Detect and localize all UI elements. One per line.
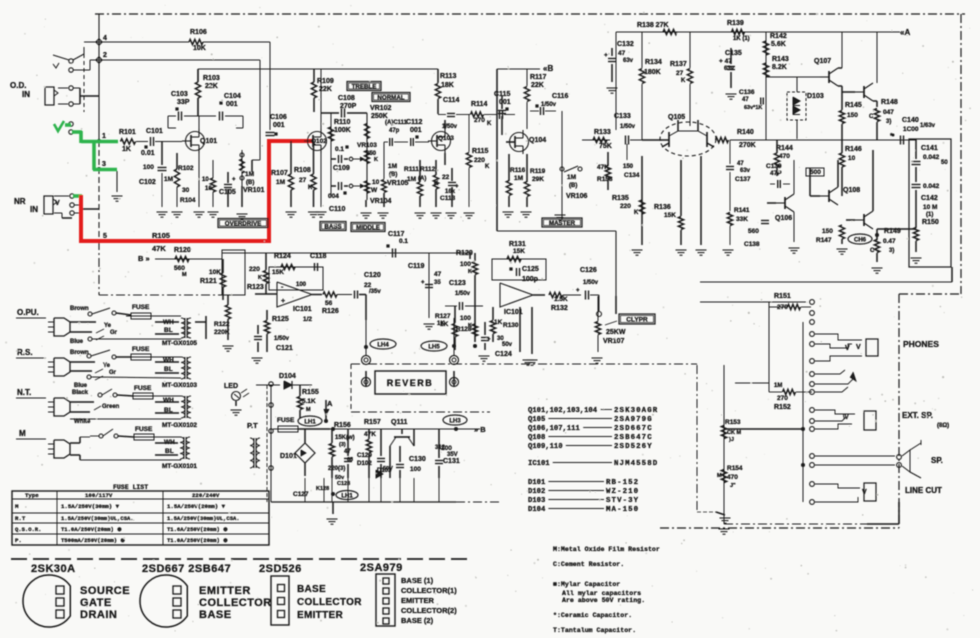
svg-text:C106: C106 — [270, 114, 287, 121]
svg-text:1.5A/250V(30mm)UL,CSA.: 1.5A/250V(30mm)UL,CSA. — [167, 515, 240, 522]
svg-text:47p: 47p — [389, 128, 400, 134]
svg-text:C132: C132 — [617, 41, 634, 48]
svg-text:R140: R140 — [737, 129, 754, 136]
svg-text:C137: C137 — [735, 176, 751, 183]
svg-text:47P: 47P — [770, 170, 782, 177]
svg-text:V: V — [856, 344, 861, 351]
svg-text:Q107: Q107 — [814, 58, 831, 65]
svg-text:R135: R135 — [612, 195, 629, 202]
svg-text:WH: WH — [163, 397, 174, 404]
svg-text:R121: R121 — [200, 278, 217, 285]
svg-text:47: 47 — [742, 97, 749, 103]
svg-text:D101: D101 — [528, 479, 546, 487]
svg-text:Q103: Q103 — [438, 135, 454, 142]
svg-text:2SD526: 2SD526 — [259, 563, 302, 575]
svg-text:R146: R146 — [845, 146, 862, 153]
svg-text:K: K — [374, 157, 378, 163]
svg-text:001: 001 — [226, 101, 238, 108]
svg-text:0.1: 0.1 — [335, 146, 344, 153]
svg-text:D103: D103 — [528, 497, 545, 505]
svg-text:Q106,107,111: Q106,107,111 — [528, 425, 580, 433]
svg-text:8.2K: 8.2K — [772, 64, 787, 71]
svg-text:63v: 63v — [740, 168, 751, 174]
svg-text:10K: 10K — [209, 269, 221, 276]
svg-text:M: M — [15, 503, 19, 510]
svg-text:C119: C119 — [408, 263, 424, 270]
svg-text:» B: » B — [474, 425, 486, 434]
svg-text:1/63v: 1/63v — [920, 123, 936, 129]
svg-text:Q105: Q105 — [668, 114, 685, 121]
svg-text:Q105: Q105 — [528, 416, 545, 424]
svg-text:M:Metal Oxide Film Resistor: M:Metal Oxide Film Resistor — [553, 546, 660, 553]
svg-text:K: K — [681, 78, 686, 84]
svg-text:LH4: LH4 — [377, 342, 389, 348]
svg-text:R101: R101 — [119, 129, 136, 136]
svg-text:R142: R142 — [770, 33, 787, 40]
svg-text:R114: R114 — [471, 101, 487, 108]
svg-text:220: 220 — [474, 157, 485, 164]
svg-text:C101: C101 — [146, 128, 163, 135]
svg-text:R150: R150 — [922, 219, 939, 226]
svg-text:VR104: VR104 — [370, 198, 392, 205]
svg-text:R156: R156 — [334, 422, 351, 429]
svg-text:CH6: CH6 — [854, 237, 867, 243]
svg-text:1.5A/250V(20mm) ▼: 1.5A/250V(20mm) ▼ — [167, 503, 226, 510]
svg-text:C126: C126 — [580, 267, 597, 274]
svg-text:16: 16 — [205, 186, 212, 192]
svg-text:10K: 10K — [193, 45, 206, 52]
svg-text:Q106: Q106 — [775, 215, 792, 222]
svg-text:1/50v: 1/50v — [274, 336, 290, 342]
svg-text:2SK30A: 2SK30A — [31, 563, 76, 575]
svg-text:C131: C131 — [443, 458, 460, 465]
svg-text:VR107: VR107 — [603, 338, 625, 345]
svg-text:1M: 1M — [388, 163, 397, 170]
svg-text:50v: 50v — [502, 342, 513, 348]
svg-text:FUSE: FUSE — [132, 346, 150, 353]
svg-text:R125: R125 — [272, 316, 289, 323]
svg-text:270K: 270K — [739, 142, 756, 149]
svg-text:220/240V: 220/240V — [192, 492, 220, 499]
svg-text:N.T.: N.T. — [17, 388, 31, 397]
svg-text:W: W — [371, 187, 378, 194]
svg-text:BASE (2): BASE (2) — [401, 616, 434, 625]
svg-text:WZ-210: WZ-210 — [606, 488, 639, 496]
svg-text:5: 5 — [103, 233, 107, 240]
svg-text:+: + — [232, 177, 236, 183]
svg-text:T1.0A/250V(20mm) ⊕: T1.0A/250V(20mm) ⊕ — [167, 537, 228, 544]
svg-text:R104: R104 — [180, 197, 196, 204]
svg-text:100: 100 — [460, 315, 471, 322]
svg-text:R133: R133 — [594, 129, 611, 136]
svg-text:D104: D104 — [279, 373, 296, 380]
svg-text:M: M — [306, 407, 311, 413]
svg-text:4: 4 — [103, 35, 107, 42]
svg-text:1K: 1K — [122, 146, 131, 153]
svg-text:R137: R137 — [670, 61, 687, 68]
svg-text:C120: C120 — [364, 272, 381, 279]
svg-text:R116: R116 — [510, 167, 526, 174]
svg-text:Green: Green — [102, 404, 120, 410]
svg-text:T1.0A/250V(20mm) ⊕: T1.0A/250V(20mm) ⊕ — [61, 526, 122, 533]
svg-text:1M: 1M — [276, 179, 285, 186]
svg-text:«A: «A — [900, 28, 910, 37]
svg-text:C135: C135 — [725, 50, 742, 57]
svg-text:470: 470 — [727, 474, 738, 481]
svg-text:VR103: VR103 — [357, 142, 377, 149]
svg-text:R117: R117 — [530, 74, 546, 81]
svg-text:D103: D103 — [807, 93, 824, 100]
svg-text:22K: 22K — [319, 86, 332, 93]
svg-text:100K: 100K — [334, 127, 351, 134]
svg-text:IC101: IC101 — [528, 460, 550, 468]
svg-text:C116: C116 — [552, 93, 568, 100]
svg-text:27: 27 — [676, 70, 684, 77]
svg-text:270: 270 — [474, 117, 485, 124]
svg-text:100: 100 — [441, 445, 452, 452]
svg-text:220: 220 — [249, 266, 260, 273]
svg-text:NJM4558D: NJM4558D — [614, 460, 658, 468]
svg-text:1/50v: 1/50v — [455, 291, 471, 297]
svg-text:EMITTER: EMITTER — [297, 610, 343, 621]
svg-text:1M: 1M — [774, 383, 782, 389]
svg-text:VR105: VR105 — [387, 180, 409, 187]
svg-text:220(3): 220(3) — [328, 466, 345, 472]
svg-text:1: 1 — [102, 133, 106, 140]
svg-text:2: 2 — [103, 52, 107, 59]
svg-text:R145: R145 — [845, 102, 862, 109]
svg-text:IN: IN — [22, 90, 30, 99]
svg-text:Brown: Brown — [70, 306, 89, 312]
svg-text:2SD667C: 2SD667C — [614, 425, 653, 433]
svg-text:C109: C109 — [333, 165, 350, 172]
svg-text:COLLECTOR: COLLECTOR — [199, 597, 272, 609]
svg-text:COLLECTOR: COLLECTOR — [297, 597, 362, 608]
svg-text:C:Cement Resistor.: C:Cement Resistor. — [553, 561, 624, 568]
svg-text:56: 56 — [325, 300, 333, 307]
svg-text:1K (1): 1K (1) — [733, 36, 750, 42]
svg-text:001: 001 — [499, 99, 511, 106]
svg-text:*:Ceramic Capacitor.: *:Ceramic Capacitor. — [553, 612, 632, 619]
svg-text:100: 100 — [460, 261, 471, 268]
svg-text:■:Mylar Capacitor: ■:Mylar Capacitor — [553, 581, 620, 588]
svg-text:C138: C138 — [744, 241, 760, 248]
svg-text:004: 004 — [328, 193, 339, 200]
svg-text:1M: 1M — [514, 175, 523, 182]
svg-text:30: 30 — [182, 187, 190, 194]
svg-text:63: 63 — [347, 457, 353, 463]
svg-text:Blue: Blue — [70, 339, 84, 345]
svg-text:+ 47: + 47 — [719, 58, 732, 65]
svg-text:270P: 270P — [340, 103, 357, 110]
svg-text:Gr: Gr — [109, 370, 117, 376]
svg-text:C136: C136 — [739, 89, 755, 96]
svg-text:K: K — [308, 185, 313, 191]
svg-text:R113: R113 — [440, 73, 456, 80]
svg-text:R105: R105 — [152, 231, 170, 240]
svg-text:SOURCE: SOURCE — [80, 585, 130, 597]
svg-text:(3): (3) — [339, 442, 346, 448]
svg-text:BASE (1): BASE (1) — [401, 576, 434, 585]
svg-text:63v: 63v — [623, 58, 634, 64]
svg-text:A: A — [327, 399, 333, 408]
svg-text:«B: «B — [543, 64, 553, 73]
svg-text:P.T: P.T — [247, 421, 258, 430]
svg-text:22: 22 — [364, 282, 372, 289]
svg-text:NORMAL: NORMAL — [377, 94, 404, 101]
svg-text:29K: 29K — [532, 176, 544, 183]
svg-text:EMITTER: EMITTER — [401, 596, 434, 605]
svg-text:75K: 75K — [599, 143, 612, 150]
svg-text:LH1: LH1 — [341, 493, 353, 499]
svg-text:C114: C114 — [443, 97, 459, 104]
svg-text:Q108: Q108 — [843, 187, 860, 194]
svg-text:(B): (B) — [569, 183, 577, 189]
svg-text:C139: C139 — [766, 163, 782, 170]
svg-text:R109: R109 — [317, 78, 334, 85]
svg-text:R120: R120 — [174, 247, 191, 254]
svg-text:0.042: 0.042 — [923, 183, 940, 190]
svg-text:10: 10 — [848, 155, 856, 162]
svg-text:0.1: 0.1 — [399, 238, 408, 245]
svg-text:T1.6A/250V(20mm) ⊕: T1.6A/250V(20mm) ⊕ — [167, 526, 228, 533]
svg-text:3): 3) — [889, 248, 894, 254]
svg-text:R.S.: R.S. — [17, 348, 33, 357]
svg-text:REVERB: REVERB — [387, 378, 434, 388]
svg-text:470: 470 — [779, 153, 790, 160]
svg-text:C125: C125 — [522, 266, 539, 273]
svg-text:50: 50 — [941, 160, 948, 166]
svg-text:R115: R115 — [472, 148, 488, 155]
svg-text:10 M: 10 M — [923, 204, 937, 211]
svg-text:Q104: Q104 — [529, 137, 546, 144]
svg-text:R103: R103 — [203, 75, 220, 82]
svg-text:K: K — [258, 275, 262, 281]
svg-text:D104: D104 — [528, 506, 546, 514]
svg-text:BL: BL — [164, 366, 173, 373]
svg-text:0.042: 0.042 — [923, 154, 940, 161]
svg-text:EMITTER: EMITTER — [199, 585, 251, 597]
svg-text:C: C — [869, 114, 874, 120]
svg-text:K128: K128 — [316, 486, 329, 492]
svg-text:M: M — [182, 272, 187, 278]
svg-text:Q101,102,103,104: Q101,102,103,104 — [528, 407, 598, 415]
svg-text:1/50v: 1/50v — [583, 280, 599, 286]
svg-text:FUSE: FUSE — [277, 417, 295, 424]
svg-text:R139: R139 — [727, 20, 744, 27]
svg-text:1K: 1K — [494, 319, 503, 326]
svg-text:C123: C123 — [449, 280, 466, 287]
svg-text:Are above 50V rating.: Are above 50V rating. — [562, 597, 645, 604]
svg-text:D101: D101 — [280, 453, 297, 460]
svg-text:150: 150 — [847, 112, 858, 119]
svg-text:Type: Type — [25, 492, 39, 499]
svg-text:2SA979: 2SA979 — [360, 562, 403, 574]
svg-text:100/117V: 100/117V — [85, 492, 113, 499]
svg-text:1/50v: 1/50v — [620, 124, 636, 130]
svg-text:LINE CUT: LINE CUT — [905, 486, 942, 495]
svg-text:R154: R154 — [727, 465, 743, 472]
svg-text:(B): (B) — [246, 180, 254, 186]
svg-text:LH3: LH3 — [449, 418, 461, 424]
svg-text:\V: \V — [843, 415, 849, 421]
svg-text:R144: R144 — [776, 145, 793, 152]
svg-text:2SB647C: 2SB647C — [614, 434, 653, 442]
svg-text:3: 3 — [102, 161, 106, 168]
svg-text:BASE: BASE — [297, 584, 326, 595]
svg-text:Q108: Q108 — [528, 434, 545, 442]
svg-text:White: White — [74, 419, 91, 425]
svg-text:R119: R119 — [530, 168, 546, 175]
svg-text:47: 47 — [737, 161, 744, 167]
svg-text:R155: R155 — [302, 389, 319, 396]
svg-text:100: 100 — [410, 466, 421, 473]
svg-text:33P: 33P — [177, 99, 190, 106]
svg-text:R151: R151 — [774, 293, 791, 300]
svg-text:Black: Black — [72, 390, 89, 396]
svg-text:Q111: Q111 — [391, 419, 407, 426]
svg-text:DRAIN: DRAIN — [80, 609, 117, 621]
svg-text:0.01: 0.01 — [141, 150, 155, 157]
svg-text:C103: C103 — [171, 91, 188, 98]
svg-text:+: + — [421, 280, 425, 286]
svg-text:C102: C102 — [139, 179, 156, 186]
svg-text:MT-GX0102: MT-GX0102 — [162, 422, 197, 429]
svg-text:RB-152: RB-152 — [606, 479, 639, 487]
svg-text:R108: R108 — [294, 167, 311, 174]
svg-text:VR102: VR102 — [370, 105, 392, 112]
svg-text:*: * — [890, 133, 893, 140]
svg-text:M: M — [19, 429, 26, 438]
svg-text:LH1: LH1 — [304, 419, 316, 425]
svg-text:Q101: Q101 — [200, 138, 217, 145]
svg-text:18K: 18K — [441, 82, 454, 89]
svg-text:22K: 22K — [531, 82, 544, 89]
svg-text:R147: R147 — [816, 237, 832, 244]
svg-text:K: K — [487, 121, 492, 127]
svg-text:FUSE: FUSE — [134, 385, 152, 392]
svg-text:(8Ω): (8Ω) — [937, 423, 949, 429]
svg-text:O.D.: O.D. — [10, 81, 26, 90]
svg-text:J": J" — [730, 483, 736, 489]
svg-text:1.5A/250V(30mm) ▼: 1.5A/250V(30mm) ▼ — [61, 503, 120, 510]
svg-text:22: 22 — [442, 174, 450, 181]
svg-text:C130: C130 — [409, 456, 426, 463]
svg-text:R111: R111 — [404, 166, 419, 173]
svg-text:C110: C110 — [329, 206, 345, 213]
svg-text:T:Tantalum Capacitor.: T:Tantalum Capacitor. — [553, 627, 636, 634]
svg-text:0.47: 0.47 — [883, 238, 896, 245]
svg-text:+: + — [576, 288, 580, 294]
svg-text:001: 001 — [273, 122, 285, 129]
svg-text:1C00: 1C00 — [903, 126, 919, 133]
svg-text:270: 270 — [777, 395, 788, 402]
svg-text:GATE: GATE — [80, 597, 112, 609]
svg-text:FUSE: FUSE — [135, 426, 153, 433]
svg-text:+: + — [604, 52, 608, 59]
svg-text:STV-3Y: STV-3Y — [606, 497, 639, 505]
svg-text:O.PU.: O.PU. — [17, 308, 39, 317]
svg-text:R143: R143 — [772, 56, 789, 63]
svg-text:(A)C111: (A)C111 — [385, 120, 408, 126]
svg-text:R138 27K: R138 27K — [637, 22, 669, 29]
svg-text:C134: C134 — [624, 172, 640, 179]
svg-text:1K: 1K — [437, 321, 445, 327]
svg-text:C117: C117 — [388, 231, 404, 238]
svg-text:R130: R130 — [503, 322, 519, 329]
svg-text:C118: C118 — [310, 253, 326, 260]
svg-text:Ye: Ye — [103, 363, 111, 369]
svg-text:MT-GX0105: MT-GX0105 — [162, 340, 197, 347]
svg-text:R123: R123 — [247, 284, 264, 291]
svg-text:500: 500 — [810, 169, 821, 176]
svg-text:M: M — [717, 473, 722, 479]
svg-text:560: 560 — [748, 228, 759, 235]
svg-text:C112: C112 — [406, 119, 422, 126]
svg-text:R141: R141 — [734, 207, 750, 214]
svg-text:5.6K: 5.6K — [771, 41, 786, 48]
svg-text:1M: 1M — [164, 176, 173, 183]
svg-text:V: V — [845, 345, 850, 352]
svg-text:C133: C133 — [614, 113, 631, 120]
svg-text:R132: R132 — [551, 305, 568, 312]
svg-text:33K: 33K — [736, 216, 748, 223]
svg-text:COLLECTOR(2): COLLECTOR(2) — [401, 606, 457, 615]
svg-text:C129: C129 — [357, 452, 372, 459]
svg-text:047: 047 — [883, 109, 894, 116]
svg-text:3): 3) — [886, 119, 891, 125]
svg-text:IN: IN — [30, 205, 38, 214]
svg-text:LH5: LH5 — [428, 344, 440, 350]
svg-text:63v*1K: 63v*1K — [744, 105, 762, 111]
svg-text:R110: R110 — [334, 119, 350, 126]
svg-text:MIDDLE: MIDDLE — [356, 224, 380, 231]
svg-text:R127: R127 — [435, 313, 451, 320]
svg-text:250K: 250K — [371, 113, 388, 120]
svg-text:P.: P. — [15, 537, 22, 544]
svg-text:1.5A/250V(30mm)UL,CSA.: 1.5A/250V(30mm)UL,CSA. — [61, 515, 134, 522]
svg-text:T500mA/250V(20mm) ⊕: T500mA/250V(20mm) ⊕ — [61, 537, 125, 544]
svg-text:EXT. SP.: EXT. SP. — [902, 411, 933, 420]
svg-text:C113: C113 — [440, 195, 456, 202]
svg-text:1M: 1M — [407, 176, 416, 183]
svg-text:C124: C124 — [495, 351, 512, 358]
svg-text:15K: 15K — [272, 269, 284, 276]
svg-text:C108: C108 — [338, 95, 355, 102]
svg-text:220: 220 — [620, 203, 631, 210]
svg-text:15K(w): 15K(w) — [335, 435, 355, 441]
svg-text:150: 150 — [822, 228, 833, 235]
svg-text:Blue: Blue — [74, 383, 88, 389]
svg-text:C104: C104 — [224, 93, 241, 100]
svg-text:FUSE: FUSE — [132, 304, 150, 311]
svg-text:R128: R128 — [456, 326, 472, 333]
svg-text:C141: C141 — [921, 145, 938, 152]
svg-text:C127: C127 — [293, 491, 309, 498]
svg-text:10: 10 — [202, 177, 209, 183]
svg-text:BL: BL — [164, 327, 173, 334]
svg-text:15K: 15K — [513, 248, 525, 255]
svg-text:OVERDRIVE: OVERDRIVE — [225, 220, 261, 227]
svg-text:C: C — [870, 248, 875, 254]
svg-text:R136: R136 — [654, 204, 671, 211]
svg-text:V: V — [55, 200, 60, 207]
svg-text:K: K — [485, 164, 490, 170]
svg-text:All mylar capacitors: All mylar capacitors — [562, 590, 641, 597]
svg-text:VR106: VR106 — [566, 193, 588, 200]
svg-text:100p: 100p — [522, 276, 538, 283]
svg-text:47: 47 — [344, 449, 351, 455]
